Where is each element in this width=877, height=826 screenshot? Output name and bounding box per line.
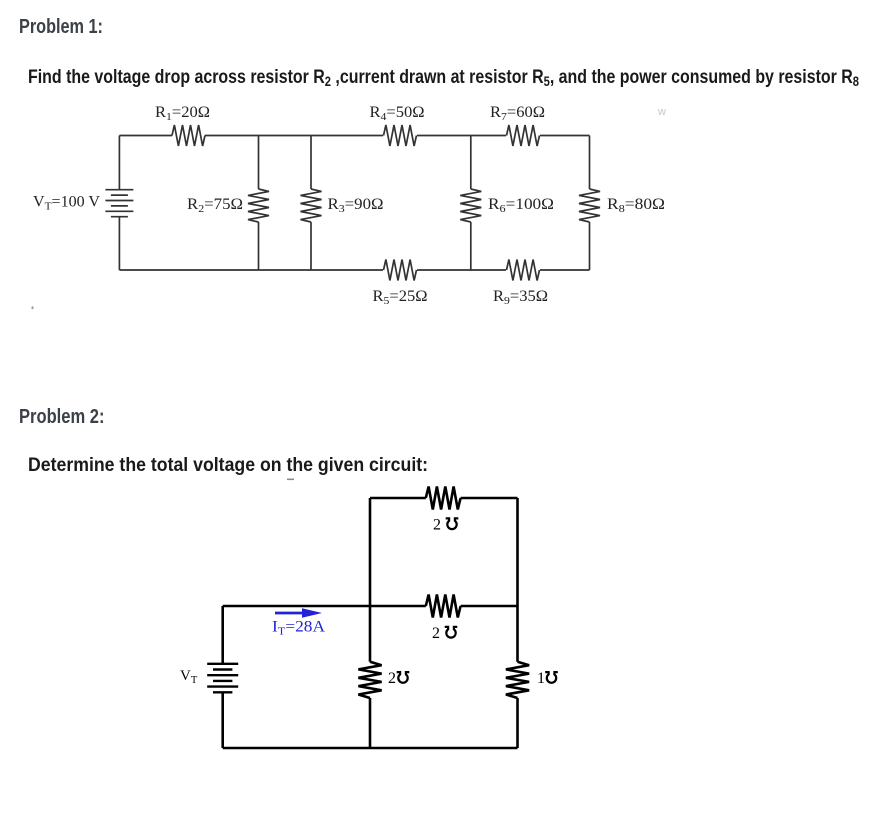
svg-text:R7=60Ω: R7=60Ω xyxy=(490,104,545,123)
svg-text:R6=100Ω: R6=100Ω xyxy=(488,196,554,215)
svg-text:R4=50Ω: R4=50Ω xyxy=(370,104,425,123)
svg-text:1: 1 xyxy=(537,670,545,687)
svg-text:2: 2 xyxy=(432,625,440,642)
svg-text:VT=100 V: VT=100 V xyxy=(33,194,101,213)
svg-text:R8=80Ω: R8=80Ω xyxy=(607,196,665,215)
svg-text:R1=20Ω: R1=20Ω xyxy=(155,104,210,123)
svg-text:R5=25Ω: R5=25Ω xyxy=(373,288,428,307)
svg-text:2: 2 xyxy=(388,670,396,687)
svg-text:R2=75Ω: R2=75Ω xyxy=(187,196,243,215)
svg-text:R3=90Ω: R3=90Ω xyxy=(328,196,384,215)
svg-text:2: 2 xyxy=(433,517,441,534)
svg-text:R9=35Ω: R9=35Ω xyxy=(493,288,548,307)
svg-text:VT: VT xyxy=(180,668,198,686)
svg-text:IT=28A: IT=28A xyxy=(272,619,326,638)
svg-text:w: w xyxy=(657,106,666,118)
